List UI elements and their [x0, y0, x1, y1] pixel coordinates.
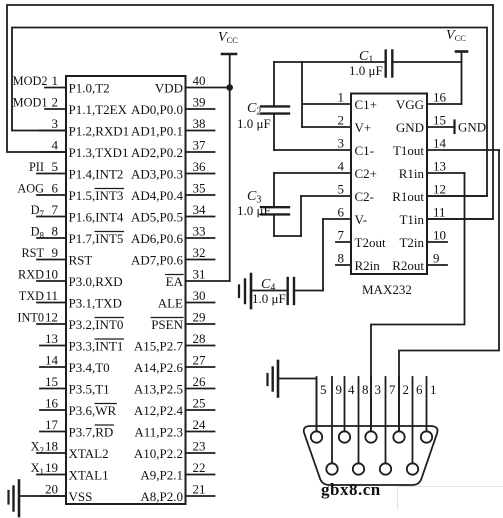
svg-text:37: 37: [193, 138, 207, 153]
svg-text:21: 21: [193, 482, 206, 497]
DB9 pin 3: [365, 377, 381, 443]
decorative faint box (scan artifact): [398, 487, 503, 510]
svg-text:PSEN: PSEN: [151, 317, 183, 332]
MCU pin 40 VDD stub: [155, 73, 230, 96]
svg-text:T2out: T2out: [355, 235, 386, 250]
MCU pin 38 AD1,P0.1 stub: [131, 116, 215, 139]
svg-text:8: 8: [362, 382, 369, 397]
svg-text:MAX232: MAX232: [362, 282, 412, 297]
svg-text:A14,P2.6: A14,P2.6: [134, 360, 184, 375]
svg-text:A15,P2.7: A15,P2.7: [134, 339, 184, 354]
svg-text:A9,P2.1: A9,P2.1: [140, 468, 183, 483]
svg-text:15: 15: [45, 374, 58, 389]
MAX232 pin 2 V+ stub: [302, 113, 371, 136]
capacitor C1 1.0uF (top, to Vcc): [274, 49, 462, 78]
MCU pin 29 PSEN stub: [151, 310, 214, 333]
MCU pin 2 P1.1,T2EX stub: [13, 95, 128, 118]
svg-text:VCC: VCC: [446, 28, 466, 43]
svg-text:P1.0,T2: P1.0,T2: [69, 81, 110, 96]
svg-text:4: 4: [52, 138, 59, 153]
svg-text:5: 5: [52, 159, 59, 174]
svg-text:29: 29: [193, 310, 206, 325]
capacitor C3 1.0uF (pins 4/5 side): [237, 173, 301, 236]
svg-text:AD1,P0.1: AD1,P0.1: [131, 124, 183, 139]
svg-text:A10,P2.2: A10,P2.2: [134, 446, 183, 461]
svg-text:1: 1: [430, 382, 437, 397]
svg-text:1: 1: [52, 73, 59, 88]
svg-text:5: 5: [320, 382, 327, 397]
svg-text:P3.0,RXD: P3.0,RXD: [69, 274, 123, 289]
svg-text:2: 2: [338, 113, 345, 128]
svg-text:14: 14: [45, 353, 59, 368]
svg-text:P1.6,INT4: P1.6,INT4: [69, 210, 124, 225]
MCU pin 16 P3.6,WR stub: [40, 396, 117, 419]
svg-text:X2: X2: [31, 440, 44, 456]
MCU pin 9 RST stub: [21, 245, 92, 268]
svg-text:AD0,P0.0: AD0,P0.0: [131, 102, 183, 117]
svg-text:C2+: C2+: [355, 166, 378, 181]
svg-text:P3.3,INT1: P3.3,INT1: [69, 339, 124, 354]
MCU pin 5 P1.4,INT2 stub: [29, 159, 123, 182]
MAX232 pin 16 VGG stub: [396, 90, 462, 113]
wire net RXD1 to R1out (P1.2 pin3 around top to MAX232 pin12): [12, 28, 487, 197]
svg-text:38: 38: [193, 116, 206, 131]
MCU pin 25 A12,P2.4 stub: [134, 396, 215, 419]
svg-text:26: 26: [193, 374, 207, 389]
svg-text:AD6,P0.6: AD6,P0.6: [131, 231, 184, 246]
svg-text:C1-: C1-: [355, 143, 375, 158]
svg-text:P1.1,T2EX: P1.1,T2EX: [69, 102, 128, 117]
MAX232 pin 1 C1+ stub: [302, 90, 377, 113]
svg-text:16: 16: [433, 90, 447, 105]
MCU pin 36 AD3,P0.3 stub: [131, 159, 215, 182]
wire net TXD1 to T1in (P1.3 pin4 around top to MAX232 pin11): [7, 5, 493, 219]
svg-text:32: 32: [193, 245, 206, 260]
MCU pin 34 AD5,P0.5 stub: [131, 202, 215, 225]
DB9 pin 2: [393, 377, 409, 443]
MCU pin 31 EA stub: [166, 267, 230, 290]
svg-text:16: 16: [45, 396, 59, 411]
svg-text:AD5,P0.5: AD5,P0.5: [131, 210, 183, 225]
DB9 pin 8: [353, 377, 369, 475]
DB9 pin 7: [380, 377, 396, 475]
svg-text:1: 1: [338, 90, 345, 105]
DB9 pin 4: [339, 377, 355, 443]
svg-text:22: 22: [193, 460, 206, 475]
svg-text:9: 9: [336, 382, 343, 397]
svg-text:P1.4,INT2: P1.4,INT2: [69, 167, 124, 182]
svg-text:V+: V+: [355, 120, 372, 135]
svg-text:C1+: C1+: [355, 97, 378, 112]
capacitor C2 1.0uF (pins 1/3 side): [237, 62, 302, 150]
svg-text:A8,P2.0: A8,P2.0: [140, 489, 183, 504]
svg-text:2: 2: [403, 382, 410, 397]
MCU pin 11 P3.1,TXD stub: [19, 288, 122, 311]
svg-text:25: 25: [193, 396, 206, 411]
DB9 pin 9: [326, 377, 342, 475]
svg-text:PII: PII: [29, 160, 44, 174]
MCU pin 12 P3.2,INT0 stub: [17, 310, 123, 333]
MCU pin 37 AD2,P0.2 stub: [131, 138, 215, 161]
power Vcc symbol left (VDD pin 40): [218, 30, 238, 281]
power Vcc symbol right (MAX232 VGG): [446, 28, 467, 104]
ground symbol at C4: [239, 274, 251, 308]
MAX232 pin 8 R2in stub: [336, 251, 380, 274]
svg-text:30: 30: [193, 288, 206, 303]
MCU pin 26 A13,P2.5 stub: [134, 374, 215, 397]
MCU pin 17 P3.7,RD stub: [40, 417, 113, 440]
svg-text:8: 8: [338, 251, 345, 266]
svg-text:18: 18: [45, 439, 58, 454]
MCU pin 1 P1.0,T2 stub: [13, 73, 110, 96]
svg-text:6: 6: [416, 382, 423, 397]
MAX232 pin 12 R1out stub: [392, 182, 487, 205]
MCU pin 3 P1.2,RXD1 stub: [40, 116, 129, 139]
MAX232 pin 10 T2in stub: [399, 228, 447, 251]
svg-text:C2-: C2-: [355, 189, 375, 204]
svg-text:20: 20: [45, 482, 58, 497]
svg-text:AD4,P0.4: AD4,P0.4: [131, 188, 184, 203]
svg-text:15: 15: [433, 113, 446, 128]
svg-text:AD3,P0.3: AD3,P0.3: [131, 167, 183, 182]
svg-text:ALE: ALE: [158, 296, 183, 311]
MCU pin 8 P1.7,INT5 stub: [31, 224, 124, 247]
svg-text:AD2,P0.2: AD2,P0.2: [131, 145, 183, 160]
svg-text:3: 3: [52, 116, 59, 131]
svg-text:11: 11: [45, 288, 58, 303]
MCU pin 15 P3.5,T1 stub: [40, 374, 110, 397]
MAX232 pin 7 T2out stub: [336, 228, 386, 251]
svg-text:12: 12: [45, 310, 58, 325]
MCU pin 19 XTAL1 stub: [31, 460, 109, 483]
svg-text:P1.7,INT5: P1.7,INT5: [69, 231, 124, 246]
MAX232 pin 4 C2+ stub: [274, 159, 377, 182]
svg-text:A12,P2.4: A12,P2.4: [134, 403, 184, 418]
svg-text:P1.3,TXD1: P1.3,TXD1: [69, 145, 129, 160]
MCU pin 32 AD7,P0.6 stub: [131, 245, 215, 268]
svg-text:P3.1,TXD: P3.1,TXD: [69, 296, 122, 311]
svg-text:VCC: VCC: [218, 30, 238, 45]
svg-text:10: 10: [433, 228, 446, 243]
svg-text:P1.5,INT3: P1.5,INT3: [69, 188, 124, 203]
svg-text:XTAL1: XTAL1: [69, 468, 109, 483]
MAX232 pin 15 GND stub: [396, 113, 455, 136]
svg-text:P3.4,T0: P3.4,T0: [69, 360, 110, 375]
svg-text:9: 9: [52, 245, 59, 260]
svg-text:VSS: VSS: [69, 489, 93, 504]
svg-text:X1: X1: [31, 461, 44, 477]
svg-text:EA: EA: [166, 274, 184, 289]
svg-text:28: 28: [193, 331, 206, 346]
svg-text:TXD: TXD: [19, 289, 44, 303]
svg-text:AD7,P0.6: AD7,P0.6: [131, 253, 184, 268]
svg-text:8: 8: [52, 224, 59, 239]
svg-text:17: 17: [45, 417, 59, 432]
MCU pin 33 AD6,P0.6 stub: [131, 224, 215, 247]
wire R1in (pin13) to DB9 pin3: [371, 173, 465, 431]
MCU pin 28 A15,P2.7 stub: [134, 331, 215, 354]
svg-text:1.0 μF: 1.0 μF: [252, 291, 286, 306]
svg-text:D8: D8: [31, 225, 45, 241]
MCU pin 20 VSS stub: [40, 482, 92, 505]
svg-text:19: 19: [45, 460, 58, 475]
svg-text:7: 7: [52, 202, 59, 217]
MAX232 pin 13 R1in stub: [399, 159, 465, 182]
MCU pin 35 AD4,P0.4 stub: [131, 181, 215, 204]
svg-text:RST: RST: [21, 246, 44, 260]
svg-text:MOD1: MOD1: [13, 96, 48, 110]
wire ground to DB9 pin 5: [278, 379, 317, 432]
MCU pin 21 A8,P2.0 stub: [140, 482, 214, 505]
svg-text:14: 14: [433, 136, 447, 151]
svg-text:1.0 μF: 1.0 μF: [237, 116, 271, 131]
svg-text:23: 23: [193, 439, 206, 454]
svg-text:P1.2,RXD1: P1.2,RXD1: [69, 124, 130, 139]
svg-text:A11,P2.3: A11,P2.3: [134, 425, 183, 440]
svg-text:P3.7,RD: P3.7,RD: [69, 425, 114, 440]
svg-text:T1in: T1in: [399, 212, 424, 227]
wire T1out (pin14) to DB9 pin2: [399, 150, 499, 431]
capacitor C4 1.0uF (V- to ground): [251, 219, 323, 306]
wire VSS pin20 to ground: [19, 495, 66, 497]
MAX232 pin 5 C2- stub: [301, 182, 374, 205]
DB9 pin 1: [421, 377, 437, 443]
IC U2 MAX232 box: [351, 94, 427, 275]
MCU pin 22 A9,P2.1 stub: [140, 460, 214, 483]
svg-text:VDD: VDD: [155, 81, 183, 96]
ground symbol at DB9 pin5: [268, 361, 279, 397]
microcontroller U1 8051 box: [66, 76, 186, 504]
svg-text:GND: GND: [396, 120, 424, 135]
svg-text:GND: GND: [458, 120, 486, 135]
svg-text:11: 11: [433, 205, 446, 220]
MCU pin 4 P1.3,TXD1 stub: [40, 138, 128, 161]
MAX232 pin 6 V- stub: [323, 205, 367, 228]
label MAX232: [362, 282, 412, 297]
svg-text:10: 10: [45, 267, 58, 282]
svg-text:4: 4: [348, 382, 355, 397]
MCU pin 23 A10,P2.2 stub: [134, 439, 215, 462]
svg-text:31: 31: [193, 267, 206, 282]
svg-text:12: 12: [433, 182, 446, 197]
svg-text:A13,P2.5: A13,P2.5: [134, 382, 183, 397]
svg-text:T1out: T1out: [393, 143, 424, 158]
svg-text:35: 35: [193, 181, 206, 196]
svg-text:R1in: R1in: [399, 166, 425, 181]
svg-text:6: 6: [338, 205, 345, 220]
svg-text:3: 3: [338, 136, 345, 151]
svg-text:INT0: INT0: [17, 311, 44, 325]
DB9 pin 5: [311, 377, 327, 443]
svg-text:R2in: R2in: [355, 258, 381, 273]
MAX232 pin 3 C1- stub: [274, 136, 374, 159]
svg-text:P3.5,T1: P3.5,T1: [69, 382, 110, 397]
MCU pin 39 AD0,P0.0 stub: [131, 95, 215, 118]
svg-text:1.0 μF: 1.0 μF: [349, 63, 383, 78]
svg-text:VGG: VGG: [396, 97, 424, 112]
MCU pin 10 P3.0,RXD stub: [18, 267, 123, 290]
svg-text:MOD2: MOD2: [13, 74, 48, 88]
svg-text:6: 6: [52, 181, 59, 196]
svg-text:P3.6,WR: P3.6,WR: [69, 403, 117, 418]
svg-text:36: 36: [193, 159, 207, 174]
svg-text:13: 13: [45, 331, 58, 346]
svg-text:R2out: R2out: [392, 258, 424, 273]
svg-text:5: 5: [338, 182, 345, 197]
svg-text:gbx8.cn: gbx8.cn: [321, 480, 381, 499]
junction dot VDD/Vcc node: [226, 84, 233, 91]
MCU pin 27 A14,P2.6 stub: [134, 353, 215, 376]
svg-text:40: 40: [193, 73, 206, 88]
svg-text:13: 13: [433, 159, 446, 174]
DB9 pin 6: [407, 377, 423, 475]
MCU pin 6 P1.5,INT3 stub: [17, 181, 123, 204]
svg-text:7: 7: [338, 228, 345, 243]
svg-text:7: 7: [389, 382, 396, 397]
svg-text:34: 34: [193, 202, 207, 217]
svg-text:33: 33: [193, 224, 206, 239]
svg-text:RXD: RXD: [18, 268, 44, 282]
svg-text:39: 39: [193, 95, 206, 110]
svg-text:AOG: AOG: [17, 182, 44, 196]
connector J1 DB9 shell: [304, 426, 438, 485]
svg-text:R1out: R1out: [392, 189, 424, 204]
svg-text:27: 27: [193, 353, 207, 368]
svg-text:XTAL2: XTAL2: [69, 446, 109, 461]
MCU pin 24 A11,P2.3 stub: [134, 417, 214, 440]
svg-text:1.0 μF: 1.0 μF: [237, 203, 271, 218]
svg-text:V-: V-: [355, 212, 368, 227]
svg-text:4: 4: [338, 159, 345, 174]
svg-text:P3.2,INT0: P3.2,INT0: [69, 317, 124, 332]
MCU pin 18 XTAL2 stub: [31, 439, 109, 462]
MCU pin 30 ALE stub: [158, 288, 215, 311]
MAX232 pin 14 T1out stub: [393, 136, 499, 159]
MCU pin 13 P3.3,INT1 stub: [40, 331, 123, 354]
svg-text:RST: RST: [69, 253, 93, 268]
ground terminal GND at MAX232 pin 15: [455, 120, 487, 135]
watermark gbx8.cn: [321, 480, 381, 499]
ground symbol at VSS: [9, 481, 20, 517]
svg-text:3: 3: [375, 382, 382, 397]
svg-text:2: 2: [52, 95, 59, 110]
svg-text:D7: D7: [31, 203, 45, 219]
MAX232 pin 9 R2out stub: [392, 251, 447, 274]
MAX232 pin 11 T1in stub: [399, 205, 493, 228]
MCU pin 7 P1.6,INT4 stub: [31, 202, 124, 225]
svg-text:9: 9: [433, 251, 440, 266]
MCU pin 14 P3.4,T0 stub: [40, 353, 110, 376]
svg-text:T2in: T2in: [399, 235, 424, 250]
svg-text:24: 24: [193, 417, 207, 432]
